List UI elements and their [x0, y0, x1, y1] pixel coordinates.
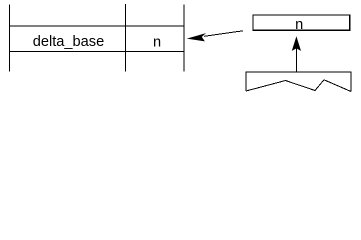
svg-text:n: n — [153, 35, 161, 51]
table right vertical line — [183, 5, 185, 72]
table lower horizontal line — [9, 51, 185, 53]
table middle vertical line — [125, 4, 127, 72]
arrow pointing left at table cell n — [187, 31, 243, 42]
table upper horizontal line — [9, 25, 185, 27]
table left vertical line — [9, 5, 11, 72]
up arrow from torn box to box n — [292, 36, 301, 71]
torn box (zigzag bottom) — [246, 72, 351, 92]
box n (top right) — [253, 15, 350, 30]
svg-text:delta_base: delta_base — [33, 34, 104, 50]
svg-text:n: n — [295, 17, 303, 33]
